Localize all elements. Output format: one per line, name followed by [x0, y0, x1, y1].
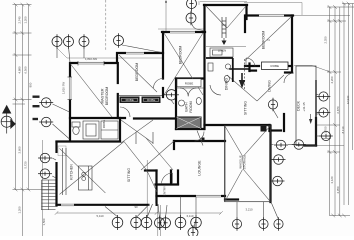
svg-text:6,560: 6,560: [24, 66, 28, 73]
grid bubble 11 (bottom row): [112, 215, 123, 230]
robe unit bedroom 1 (dark) + robe unit bedroom 2 (dark): [120, 97, 161, 104]
grid bubble 16 (bottom row): [175, 215, 186, 230]
extension lines: entry to bottom bubbles: [157, 205, 159, 236]
ceiling diagonal: bedroom 2 a: [164, 33, 203, 95]
entry stairs (treads): [42, 180, 56, 210]
stair arrow head: [222, 41, 227, 46]
wall: bedroom 2 top: [162, 31, 205, 33]
svg-text:5,410: 5,410: [97, 214, 104, 218]
roof valley: kitchen a: [60, 148, 106, 193]
roof overhang outline: bedroom 2: [158, 28, 204, 30]
roof valley: lounge b: [141, 141, 174, 170]
pergola hip line SW: [225, 170, 243, 202]
wall: bathroom left: [175, 79, 177, 130]
kitchen fridge/pantry: [58, 146, 66, 156]
svg-text:MASTER: MASTER: [101, 88, 105, 103]
wall: entry south: [156, 183, 179, 185]
wall: pergola bottom-left: [225, 198, 238, 200]
grid bubble 10 (left column): [38, 169, 52, 179]
svg-text:LIVING: LIVING: [268, 80, 272, 92]
hall door jamb right: [152, 132, 154, 144]
grid bubble 26 (deck column): [317, 92, 331, 101]
boundary line left: [42, 140, 44, 236]
svg-text:LINEN: LINEN: [218, 49, 226, 53]
wall: sitting deck pier: [283, 114, 285, 131]
wall: ensuite right: [119, 118, 121, 141]
extension line: bed3 top to right dims: [294, 15, 350, 17]
ceiling diagonal: bedroom 1: [119, 55, 157, 92]
ensuite fixtures: wc, shower, robe: [72, 121, 118, 139]
svg-text:12,930: 12,930: [346, 95, 350, 104]
grid bubble 13 (bottom row): [141, 215, 152, 230]
wall: lounge top: [174, 140, 225, 142]
wall: dining/bed3 divider: [230, 68, 250, 70]
stairwell landing edge: [206, 45, 246, 47]
wall: entry closet divider: [170, 171, 172, 185]
pergola hip line SE: [244, 170, 271, 202]
powder room walls: [206, 58, 233, 82]
hall door jamb left: [135, 132, 137, 144]
grid bubble 24 (right column): [272, 155, 286, 165]
svg-text:DINING: DINING: [225, 78, 229, 91]
svg-text:KITCHEN: KITCHEN: [69, 164, 73, 180]
svg-text:1,200: 1,200: [24, 16, 28, 23]
extension line: bed3 corner to right dims: [294, 66, 329, 72]
pergola hip line NE: [244, 126, 271, 156]
svg-text:ROBE: ROBE: [185, 81, 194, 85]
ceiling diagonal: living b: [257, 75, 284, 101]
svg-text:BEDROOM: BEDROOM: [135, 63, 139, 82]
wall: deck bottom: [305, 144, 316, 146]
grid bubble 27 (deck column): [317, 108, 331, 117]
svg-text:ROBE: ROBE: [147, 98, 155, 102]
roof overhang outline: bedroom 3: [244, 3, 302, 16]
wall: deck right: [315, 118, 317, 146]
grid bubble 23 (right column): [292, 140, 306, 150]
svg-text:1,810 SW: 1,810 SW: [62, 82, 66, 95]
svg-text:+41.35: +41.35: [302, 102, 306, 112]
wall: bedroom 3 right: [291, 16, 293, 73]
svg-text:3,600: 3,600: [18, 146, 22, 153]
wall: entry north-west: [145, 169, 157, 171]
ceiling diagonal: living a: [227, 75, 257, 101]
wall: ensuite top: [70, 117, 125, 119]
svg-text:4,880: 4,880: [18, 66, 22, 73]
stairwell ladder + direction arrow: [222, 17, 226, 43]
wall: sitting bottom: [205, 124, 270, 126]
ceiling diagonal: hall a: [121, 120, 153, 143]
grid bubble 4 (top row): [114, 33, 124, 47]
roof valley: sitting: [124, 142, 157, 193]
grid bubble 9 (left column): [38, 153, 52, 163]
svg-text:900: 900: [29, 82, 33, 87]
wall: master/bed1 divider upper: [117, 63, 119, 83]
grid bubble 20 (pergola row): [259, 217, 268, 231]
shower (dark hatched): [177, 117, 202, 129]
grid bubble 25 (right column): [271, 176, 285, 186]
grid bubble 1 (top row): [52, 34, 62, 48]
svg-text:1,760: 1,760: [324, 126, 328, 133]
grid bubble 29 (hall): [268, 98, 277, 112]
svg-text:BEDROOM: BEDROOM: [105, 87, 109, 106]
wall: dining nib horizontal: [250, 69, 257, 71]
svg-text:SITTING: SITTING: [244, 101, 248, 115]
svg-text:4,200: 4,200: [330, 76, 334, 83]
svg-text:BEDROOM: BEDROOM: [179, 46, 183, 65]
robe bedroom 3 (white box): [262, 62, 289, 70]
grid bubble 5 (top centre upper): [187, 0, 197, 11]
wall: master/bed1 divider lower: [117, 94, 119, 118]
wall: dining nib vertical: [248, 64, 250, 72]
wall: sitting bottom jog: [268, 125, 270, 131]
wall: deck door head: [285, 71, 292, 73]
wall: bed1/bed2 divider lower: [162, 88, 164, 97]
grid bubble 17 (bottom row): [191, 215, 202, 230]
ceiling diagonal: bedroom 2 b: [164, 33, 203, 95]
hall stair arrow (down): [239, 73, 313, 124]
grid bubble 6 (top centre lower): [186, 11, 196, 25]
grid bubble 8 (left column): [39, 117, 53, 127]
svg-text:2,740: 2,740: [18, 16, 22, 23]
wall: bathroom bottom: [176, 128, 204, 130]
grid bubble 28 (deck column): [319, 131, 333, 140]
wall: master bedroom left + top, jog to bed1 top: [70, 53, 163, 141]
linen cupboard: [210, 48, 233, 57]
deck level marker arrow: [309, 119, 312, 124]
wall: sitting bottom right: [270, 129, 282, 131]
svg-text:6,870: 6,870: [336, 106, 340, 113]
dashed setback line: [105, 0, 107, 51]
ceiling diagonal: master bedroom: [71, 64, 113, 117]
wall: lounge left stub: [173, 141, 175, 149]
dimension emphasis dashes: [33, 96, 40, 121]
kitchen island bench with sink: [63, 148, 93, 195]
bathroom fixtures: robe shelf, shower cube, wc, basin: [176, 79, 204, 106]
svg-text:DECK: DECK: [297, 100, 301, 111]
extension line: deck corner to right dims: [317, 145, 344, 147]
wall: bathroom top: [176, 77, 204, 79]
roof valley: stairwell b: [227, 6, 246, 28]
grid bubble 3 (top row): [79, 34, 89, 48]
dimension line: bottom 5410/6110: [57, 212, 222, 214]
grid bubble 15 (bottom row): [161, 216, 171, 230]
leader line: top datum: [165, 0, 167, 31]
wall: kitchen bottom: [57, 204, 157, 206]
grid bubble 7 (left column): [39, 98, 53, 108]
svg-text:BATH: BATH: [185, 102, 189, 112]
lounge door jamb: [202, 138, 205, 142]
ceiling diagonal: hall b: [121, 120, 153, 143]
svg-text:6,110: 6,110: [187, 214, 194, 218]
svg-text:ROBE: ROBE: [271, 64, 280, 68]
windows: white break + double thin lines over walls: [55, 14, 284, 206]
svg-text:ENTRY: ENTRY: [163, 186, 167, 196]
grid bubble 19 (pergola row): [232, 217, 241, 231]
wall: bedroom 3 bottom right: [283, 65, 292, 67]
wall: stairwell right: [245, 5, 247, 19]
wall: central spine: [203, 5, 205, 129]
grid bubble 30 (bathroom corridor): [164, 90, 179, 100]
wall: stairwell top: [204, 4, 247, 6]
svg-text:2: 2: [267, 39, 271, 41]
wall: bed1/bed2 divider upper: [162, 32, 164, 79]
grid bubble 21 (pergola row): [274, 217, 283, 231]
svg-text:ROBE: ROBE: [126, 98, 134, 102]
svg-text:BEDROOM: BEDROOM: [262, 31, 266, 50]
wall: kitchen top: [57, 140, 121, 142]
wall: hall top: [134, 117, 176, 119]
svg-text:8,110: 8,110: [341, 126, 345, 133]
svg-text:5,720: 5,720: [24, 161, 28, 168]
grid bubble 14 (bottom row): [155, 216, 165, 230]
roof overhang outline: north-west: [57, 48, 163, 58]
wall: entry west: [155, 171, 157, 205]
pergola post: [261, 126, 267, 132]
svg-text:STORAGE: STORAGE: [243, 155, 247, 170]
svg-text:4,050: 4,050: [336, 186, 340, 193]
svg-text:SITTING: SITTING: [127, 168, 131, 182]
roof valley: kitchen b: [60, 142, 125, 195]
wall: entry east: [177, 171, 179, 185]
door arcs: bed3, entry, master, kitchen, bed1, hall, deck: [120, 58, 294, 184]
wall: bedroom 3 left stub: [244, 16, 246, 33]
extension line: sitting to bubble: [146, 160, 148, 218]
north point symbol: [1, 106, 15, 134]
grid bubble 18 (bottom offset): [188, 225, 198, 239]
pergola hip line NW: [225, 126, 243, 156]
pergola ridge: [243, 156, 244, 170]
wall: bedroom 3 top: [246, 14, 293, 16]
svg-text:2,350: 2,350: [324, 36, 328, 43]
grid bubble 2 (top row): [64, 34, 74, 48]
svg-text:90: 90: [134, 205, 138, 209]
svg-text:ROOM: ROOM: [189, 101, 193, 112]
roof valley: lounge a: [146, 138, 173, 170]
svg-text:3,120: 3,120: [330, 176, 334, 183]
svg-text:1,810 AW: 1,810 AW: [85, 57, 97, 61]
roof valley: stairwell a: [206, 6, 227, 28]
svg-text:ROBE: ROBE: [102, 120, 106, 129]
svg-text:LOUNGE: LOUNGE: [198, 160, 202, 176]
grid bubble 22 (right column): [274, 140, 288, 150]
svg-text:1,200: 1,200: [18, 206, 22, 213]
svg-text:1,500: 1,500: [42, 218, 46, 225]
ceiling diagonal: bedroom 3: [245, 17, 292, 61]
wall: pergola right: [269, 126, 271, 203]
wall: kitchen left: [55, 142, 57, 206]
powder room fixtures: basin, wc, cabinet, door arc, dashed line: [208, 59, 245, 95]
roof overhang outline: stairwell: [198, 1, 200, 5]
wall: lounge bottom: [157, 195, 226, 197]
grid bubble 12 (bottom row): [131, 215, 142, 230]
svg-text:3,210: 3,210: [246, 208, 253, 212]
wall: bedroom 3 bottom left: [245, 65, 259, 67]
